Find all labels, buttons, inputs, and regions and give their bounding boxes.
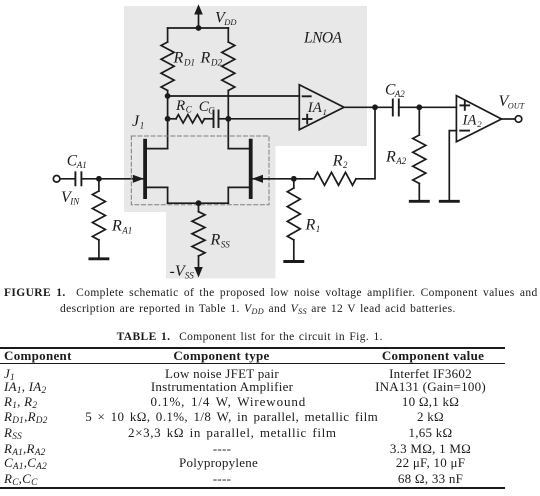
wire node to RSS [198, 203, 200, 212]
wire node to RA1 [98, 179, 100, 191]
wire RC to CC [205, 118, 214, 120]
wire VDD rail [168, 27, 229, 29]
table header row [0, 348, 540, 350]
svg-text:R: R [305, 216, 316, 233]
svg-text:D2: D2 [210, 58, 222, 68]
node RA2 tap [416, 104, 422, 110]
wire IA1 output down to R2 [356, 107, 375, 179]
terminal VOUT [515, 116, 522, 123]
svg-text:A1: A1 [121, 225, 132, 235]
wire node to RA2 [418, 107, 420, 135]
svg-text:R: R [210, 232, 221, 249]
resistor RA1 [92, 191, 105, 240]
shaded region: LNOA amplifier background [124, 6, 367, 279]
node RC tap on left drain [165, 116, 171, 122]
svg-text:SS: SS [221, 239, 231, 249]
wire CA2 to IA2 input [399, 106, 457, 108]
wire IA2 output [502, 118, 516, 120]
svg-text:R: R [111, 218, 122, 235]
wire IA2 inverting input to ground [449, 131, 456, 201]
capacitor CA2 [393, 100, 399, 116]
power VDD symbol [194, 4, 203, 28]
op-amp IA1 [299, 85, 344, 130]
wire input to CA1 [60, 178, 75, 180]
svg-text:1: 1 [316, 224, 321, 234]
svg-text:IA: IA [462, 112, 478, 128]
label CC [199, 99, 216, 116]
transistor J1 left JFET [133, 141, 168, 204]
svg-text:A2: A2 [394, 89, 405, 99]
ground IA2 [440, 200, 458, 203]
wire VDD to RD1 [167, 28, 169, 42]
wire R1 to ground [293, 240, 295, 261]
label LNOA [303, 29, 343, 46]
wire node to R1 [293, 179, 295, 188]
wire to RC [168, 118, 176, 120]
svg-text:R: R [385, 148, 396, 165]
dashed box J1 JFET pair [131, 136, 269, 205]
table title [117, 332, 383, 344]
svg-text:J: J [132, 113, 140, 130]
label R2 [332, 152, 348, 170]
svg-text:D1: D1 [183, 58, 195, 68]
table bottom rule [0, 487, 505, 489]
svg-text:IA: IA [307, 100, 323, 116]
node right drain junction [225, 116, 231, 122]
table top rule [0, 347, 505, 349]
wire CC to right drain [219, 118, 229, 120]
svg-text:1: 1 [140, 121, 145, 131]
wire CA1 to left gate [81, 178, 143, 180]
label VOUT [499, 93, 526, 111]
label RA2 [385, 148, 407, 166]
label VDD [215, 9, 237, 27]
resistor RA2 [413, 135, 426, 184]
table header rule [0, 363, 505, 365]
svg-text:SS: SS [185, 271, 195, 281]
ground RA1 [90, 257, 108, 260]
label -VSS [170, 263, 195, 281]
label J1 [132, 113, 144, 131]
wire IA1 output [344, 106, 392, 108]
svg-text:1: 1 [323, 107, 327, 117]
svg-text:R: R [332, 152, 343, 169]
label RD2 [200, 50, 223, 68]
wire right drain to IA1 non-inverting input [228, 118, 299, 120]
wire left drain to IA1 inverting input [168, 95, 300, 97]
resistor R1 [287, 188, 300, 240]
resistor RD2 [222, 42, 235, 91]
node VDD junction [196, 25, 202, 31]
figure caption line 2 [60, 304, 456, 316]
node input junction [96, 176, 102, 182]
svg-text:2: 2 [343, 160, 348, 170]
resistor R2 [314, 172, 356, 185]
resistor RSS [192, 212, 205, 256]
svg-text:DD: DD [223, 17, 237, 27]
wire RA2 to ground [418, 184, 420, 201]
transistor J1 right JFET [228, 141, 293, 204]
wire RD1 bottom to left drain [167, 91, 169, 149]
ground R1 [285, 260, 303, 263]
capacitor CC [214, 111, 219, 128]
label VIN [61, 189, 80, 207]
label R1 [305, 216, 321, 234]
resistor RD1 [161, 42, 174, 91]
figure caption line 1 [4, 288, 538, 300]
svg-text:R: R [173, 50, 184, 67]
wire RD2 bottom to right drain [227, 91, 229, 149]
node IA1 output junction [372, 104, 378, 110]
capacitor CA1 [75, 172, 81, 185]
svg-text:A2: A2 [395, 156, 406, 166]
label RD1 [173, 50, 196, 68]
label RC [175, 98, 193, 115]
op-amp IA2 [456, 96, 501, 142]
wire VDD to RD2 [227, 28, 229, 42]
label RSS [210, 232, 231, 250]
label RA1 [111, 218, 132, 236]
wire common sources [168, 202, 229, 204]
svg-text:LNOA: LNOA [303, 29, 343, 46]
wire RA1 to ground [98, 240, 100, 258]
ground RA2 [410, 200, 428, 203]
terminal VIN [53, 176, 60, 183]
label CA1 [67, 152, 87, 170]
svg-text:2: 2 [477, 119, 482, 129]
table body rows [0, 0, 540, 1]
svg-text:R: R [175, 98, 185, 114]
svg-text:A1: A1 [76, 160, 87, 170]
svg-text:OUT: OUT [508, 102, 526, 111]
power -VSS symbol [194, 256, 203, 278]
node common source junction [196, 200, 202, 206]
wire R2 to right gate node [294, 178, 314, 180]
svg-text:IN: IN [69, 197, 80, 207]
node left drain junction [165, 93, 171, 99]
svg-text:R: R [200, 50, 211, 67]
label CA2 [385, 81, 405, 99]
svg-text:C: C [208, 106, 215, 116]
node right gate junction [291, 176, 297, 182]
resistor RC [176, 115, 205, 123]
svg-text:C: C [186, 105, 193, 115]
